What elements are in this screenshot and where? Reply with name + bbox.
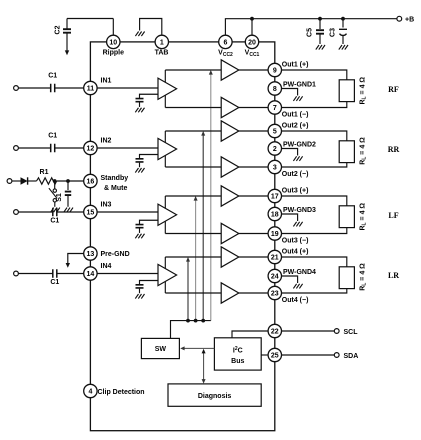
wire channel 3 (+) amp to pin [239, 195, 268, 197]
wire load to Out4 (−) [282, 289, 347, 293]
wire channel 4 cap to ground [139, 289, 141, 294]
svg-text:2: 2 [273, 146, 277, 153]
ground below standby cap [64, 208, 73, 213]
capacitor C1 (IN4) [50, 269, 59, 286]
svg-text:10: 10 [109, 40, 117, 47]
ground below C3 [339, 45, 348, 50]
svg-text:RL = 4 Ω: RL = 4 Ω [359, 137, 367, 165]
junction control ch2 / bus [201, 319, 205, 323]
wire IN3 pin to input amp [97, 211, 158, 213]
ground arrow below C2 [65, 50, 69, 55]
wire channel 4 bottom rail [165, 292, 221, 294]
capacitor C1 (IN1) [48, 73, 57, 93]
ground PW-GND3 [293, 222, 302, 227]
wire channel 2 split vertical [164, 131, 166, 167]
wire channel 1 inverting input stub [140, 94, 159, 98]
wire pin10 riser [112, 19, 114, 36]
wire channel 3 top rail [165, 195, 221, 197]
svg-text:20: 20 [248, 40, 256, 47]
op-amp input stage channel 2 [158, 138, 177, 159]
wire channel 1 bottom rail [165, 107, 221, 109]
capacitor channel 2 input amp decoupling [136, 159, 144, 162]
pin 20 VCC1 [245, 35, 258, 48]
wire ripple rail [67, 18, 113, 20]
svg-text:Out3 (−): Out3 (−) [282, 238, 309, 245]
svg-text:9: 9 [273, 68, 277, 75]
terminal standby input [7, 179, 12, 184]
capacitor C1 (IN2) [48, 133, 57, 153]
svg-text:17: 17 [271, 194, 279, 201]
pin 17 Out3 (+) [268, 189, 281, 202]
wire channel 4 (−) amp to pin [239, 292, 268, 294]
svg-text:SDA: SDA [344, 353, 359, 360]
pin 8 PW-GND1 [268, 82, 281, 95]
wire +B supply rail [225, 19, 396, 36]
pin 18 PW-GND3 [268, 207, 281, 220]
block Diagnosis [168, 384, 261, 406]
svg-text:IN4: IN4 [101, 263, 112, 270]
wire channel 2 cap to ground [139, 163, 141, 168]
op-amp input stage channel 3 [158, 204, 177, 225]
capacitor C3 [330, 28, 348, 37]
wire PW-GND3 to ground [282, 214, 298, 221]
wire IN2 pin to input amp [97, 147, 158, 149]
svg-text:C5: C5 [307, 28, 314, 37]
junction control ch3 / bus [194, 319, 198, 323]
svg-text:RF: RF [388, 85, 399, 94]
svg-text:19: 19 [271, 231, 279, 238]
wire channel 3 (−) amp to pin [239, 233, 268, 235]
wire switch to ground [54, 202, 56, 207]
wire IN1 pin to input amp [97, 87, 158, 89]
load resistor RL channel 2 [339, 141, 354, 163]
svg-text:25: 25 [271, 353, 279, 360]
svg-text:PW-GND3: PW-GND3 [283, 207, 316, 214]
svg-text:TAB: TAB [155, 50, 169, 57]
svg-text:PW-GND1: PW-GND1 [283, 81, 316, 88]
junction +B rail / C5 [318, 17, 322, 21]
svg-text:22: 22 [271, 329, 279, 336]
svg-text:Out4 (−): Out4 (−) [282, 297, 309, 304]
terminal IN2 input [14, 146, 19, 151]
capacitor channel 3 input amp decoupling [136, 225, 144, 228]
wire channel 3 cap to ground [139, 228, 141, 233]
pin 25 SDA [268, 348, 281, 361]
capacitor C2 [55, 25, 72, 34]
ground PW-GND1 [293, 96, 302, 101]
wire R1 to pin 16 [57, 180, 84, 182]
svg-text:16: 16 [87, 179, 95, 186]
svg-text:C1: C1 [48, 73, 57, 80]
switch S1 [49, 188, 63, 202]
wire pin 22 to SCL terminal [282, 330, 335, 332]
ground below C5 [316, 45, 325, 50]
svg-text:RL = 4 Ω: RL = 4 Ω [359, 203, 367, 231]
ground channel 3 input amp [135, 234, 144, 239]
wire PW-GND2 to ground [282, 149, 298, 156]
svg-text:21: 21 [271, 255, 279, 262]
pin 3 Out2 (−) [268, 160, 281, 173]
wire PW-GND1 to ground [282, 89, 298, 96]
op-amp output stage channel 4 (−) [221, 283, 239, 303]
svg-text:I2C: I2C [233, 346, 243, 355]
terminal IN3 input [14, 210, 19, 215]
capacitor channel 1 input amp decoupling [136, 99, 144, 102]
op-amp output stage channel 1 (−) [221, 97, 239, 117]
svg-text:12: 12 [87, 146, 95, 153]
svg-text:C3: C3 [330, 28, 337, 37]
svg-text:3: 3 [273, 165, 277, 172]
svg-text:C1: C1 [50, 279, 59, 286]
wire PW-GND4 to ground [282, 276, 298, 283]
svg-text:LR: LR [388, 271, 399, 280]
svg-text:Standby: Standby [101, 175, 129, 182]
svg-text:11: 11 [87, 86, 95, 93]
wire IN3 input right [57, 211, 84, 213]
junction +B rail / C3 [341, 17, 345, 21]
wire SW bus collector [171, 321, 211, 339]
svg-text:IN1: IN1 [101, 78, 112, 85]
ground channel 2 input amp [135, 168, 144, 173]
wire I2C Bus to SW with arrow [184, 347, 214, 349]
wire control line channel 2 from SW [202, 135, 204, 320]
svg-text:VCC2: VCC2 [218, 50, 233, 59]
wire standby cap to ground [67, 196, 69, 207]
svg-text:5: 5 [273, 129, 277, 136]
wire IN1 input right [55, 87, 84, 89]
wire C2 top lead [66, 19, 68, 30]
wire channel 2 (+) amp to pin [239, 130, 268, 132]
wire IN4 pin to input amp [97, 273, 158, 275]
svg-text:LF: LF [388, 211, 398, 220]
pin 4 Clip Detection [84, 384, 97, 397]
svg-text:PW-GND4: PW-GND4 [283, 269, 316, 276]
wire channel 3 inverting input stub [140, 220, 159, 224]
wire TAB to ground [140, 19, 162, 36]
wire IN1 input left [18, 87, 50, 89]
wire IN4 input left [18, 273, 52, 275]
junction standby cap [66, 179, 70, 183]
svg-text:Out2 (+): Out2 (+) [282, 123, 309, 130]
wire channel 4 inverting input stub [140, 281, 159, 285]
wire load to Out2 (−) [282, 163, 347, 167]
svg-text:C1: C1 [50, 218, 59, 225]
svg-text:RL = 4 Ω: RL = 4 Ω [359, 77, 367, 105]
wire channel 2 bottom rail [165, 166, 221, 168]
svg-text:6: 6 [223, 40, 227, 47]
pin 24 PW-GND4 [268, 269, 281, 282]
pin 9 Out1 (+) [268, 63, 281, 76]
svg-text:Out1 (+): Out1 (+) [282, 62, 309, 69]
wire pin 13 to ground arrow [68, 254, 84, 264]
op-amp output stage channel 2 (+) [221, 121, 239, 141]
pin 11 IN1 [84, 81, 97, 94]
ground PW-GND4 [293, 284, 302, 289]
wire Out3 (+) to load [282, 196, 347, 206]
pin 16 Standby & Mute [84, 174, 97, 187]
terminal SCL [334, 329, 339, 334]
pin 10 Ripple [107, 35, 120, 48]
wire IN3 input left [18, 211, 52, 213]
wire standby to diode [12, 180, 21, 182]
svg-text:8: 8 [273, 86, 277, 93]
wire channel 1 (−) amp to pin [239, 107, 268, 109]
ground at TAB [135, 31, 144, 36]
ground below switch S1 [51, 208, 60, 213]
svg-text:Clip Detection: Clip Detection [98, 389, 145, 396]
wire load to Out1 (−) [282, 102, 347, 108]
capacitor C5 [307, 28, 325, 37]
svg-text:RL = 4 Ω: RL = 4 Ω [359, 263, 367, 291]
op-amp output stage channel 2 (−) [221, 157, 239, 177]
op-amp output stage channel 1 (+) [221, 60, 239, 80]
wire Out1 (+) to load [282, 70, 347, 80]
wire channel 1 top rail [165, 69, 221, 71]
resistor R1 [37, 178, 57, 184]
wire IN2 input left [18, 147, 50, 149]
junction +B rail / pin20 riser [250, 17, 254, 21]
svg-text:& Mute: & Mute [104, 185, 127, 192]
load resistor RL channel 1 [339, 80, 354, 102]
pin 19 Out3 (−) [268, 227, 281, 240]
wire channel 4 top rail [165, 256, 221, 258]
wire Out2 (+) to load [282, 131, 347, 141]
pin 12 IN2 [84, 141, 97, 154]
svg-text:Out3 (+): Out3 (+) [282, 188, 309, 195]
op-amp output stage channel 4 (+) [221, 247, 239, 267]
terminal SDA [334, 353, 339, 358]
op-amp input stage channel 1 [158, 78, 177, 99]
diode D1 [21, 177, 28, 184]
svg-text:Bus: Bus [231, 358, 244, 365]
svg-text:14: 14 [87, 271, 95, 278]
terminal IN1 input [14, 86, 19, 91]
wire channel 1 cap to ground [139, 102, 141, 107]
pin 21 Out4 (+) [268, 250, 281, 263]
wire to switch S1 [54, 181, 56, 189]
svg-text:Out4 (+): Out4 (+) [282, 249, 309, 256]
wire I2C Bus to pin 25 [261, 354, 268, 356]
op-amp output stage channel 3 (−) [221, 223, 239, 243]
svg-text:RR: RR [388, 145, 400, 154]
terminal +B [397, 16, 402, 21]
svg-text:S1: S1 [56, 193, 63, 202]
wire channel 4 split vertical [164, 257, 166, 293]
svg-text:Out2 (−): Out2 (−) [282, 171, 309, 178]
ground arrow below pin 13 [66, 263, 70, 268]
pin 14 IN4 [84, 267, 97, 280]
pin 22 SCL [268, 324, 281, 337]
wire control line channel 4 from SW [187, 261, 189, 320]
terminal IN4 input [14, 271, 19, 276]
junction R1 / switch [53, 179, 57, 183]
arrowhead control line channel 4 [186, 257, 190, 262]
IC block outline U1 [90, 42, 274, 431]
wire IN4 input right [57, 273, 84, 275]
junction control ch4 / bus [186, 319, 190, 323]
wire channel 3 bottom rail [165, 233, 221, 235]
pin 5 Out2 (+) [268, 124, 281, 137]
pin 23 Out4 (−) [268, 286, 281, 299]
svg-text:SW: SW [155, 346, 167, 353]
block SW [141, 338, 179, 358]
wire Out4 (+) to load [282, 257, 347, 267]
svg-text:C1: C1 [48, 133, 57, 140]
svg-text:23: 23 [271, 291, 279, 298]
capacitor channel 4 input amp decoupling [136, 285, 144, 288]
wire channel 1 (+) amp to pin [239, 69, 268, 71]
svg-text:SCL: SCL [344, 329, 359, 336]
svg-text:+B: +B [405, 17, 414, 24]
wire C5 lower lead [319, 34, 321, 44]
pin 13 Pre-GND [84, 247, 97, 260]
svg-text:1: 1 [160, 40, 164, 47]
svg-text:R1: R1 [40, 169, 49, 176]
pin 7 Out1 (−) [268, 101, 281, 114]
ground channel 4 input amp [135, 294, 144, 299]
wire control line channel 1 from SW [210, 74, 212, 320]
pin 2 PW-GND2 [268, 142, 281, 155]
svg-text:Diagnosis: Diagnosis [198, 393, 232, 400]
wire pin 25 to SDA terminal [282, 354, 335, 356]
svg-text:Out1 (−): Out1 (−) [282, 112, 309, 119]
ground channel 1 input amp [135, 108, 144, 113]
wire channel 2 (−) amp to pin [239, 166, 268, 168]
svg-text:VCC1: VCC1 [245, 50, 260, 59]
load resistor RL channel 3 [339, 206, 354, 228]
arrowhead control line channel 1 [209, 70, 213, 75]
svg-text:C2: C2 [55, 25, 62, 34]
svg-text:Pre-GND: Pre-GND [101, 251, 130, 258]
pin 1 TAB [155, 35, 168, 48]
wire diode to R1 [28, 180, 37, 182]
wire channel 2 inverting input stub [140, 155, 159, 159]
svg-text:PW-GND2: PW-GND2 [283, 141, 316, 148]
wire channel 3 split vertical [164, 196, 166, 234]
svg-text:IN2: IN2 [101, 138, 112, 145]
load resistor RL channel 4 [339, 267, 354, 289]
svg-text:4: 4 [88, 389, 92, 396]
op-amp output stage channel 3 (+) [221, 186, 239, 206]
wire SW/I2C to Diagnosis double arrow [203, 353, 205, 380]
arrowhead control line channel 3 [194, 196, 198, 201]
wire load to Out3 (−) [282, 228, 347, 234]
wire control line channel 3 from SW [195, 200, 197, 320]
svg-text:13: 13 [87, 251, 95, 258]
wire channel 1 split vertical [164, 70, 166, 108]
svg-text:IN3: IN3 [101, 202, 112, 209]
wire I2C Bus to pin 22 [232, 331, 268, 338]
capacitor C4 (standby) [65, 192, 71, 196]
pin 15 IN3 [84, 205, 97, 218]
svg-text:7: 7 [273, 105, 277, 112]
svg-text:18: 18 [271, 212, 279, 219]
svg-text:15: 15 [87, 210, 95, 217]
block I2C Bus [214, 338, 261, 370]
pin 6 VCC2 [219, 35, 232, 48]
wire channel 2 top rail [165, 130, 221, 132]
wire C3 lower lead [342, 36, 344, 45]
wire IN2 input right [55, 147, 84, 149]
capacitor C1 (IN3) [50, 208, 59, 225]
svg-text:Ripple: Ripple [103, 50, 124, 57]
svg-text:24: 24 [271, 274, 279, 281]
ground PW-GND2 [293, 156, 302, 161]
wire to standby cap [67, 181, 69, 190]
op-amp input stage channel 4 [158, 264, 177, 285]
wire C2 bottom lead [66, 34, 68, 51]
arrowhead control line channel 2 [201, 131, 205, 136]
wire channel 4 (+) amp to pin [239, 256, 268, 258]
